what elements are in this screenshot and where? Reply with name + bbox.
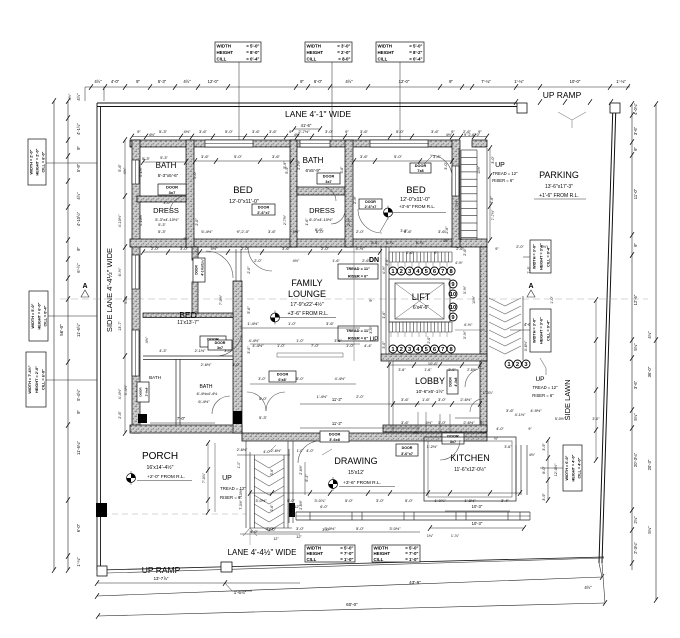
wall bed1 east [290, 140, 297, 247]
svg-text:3'-6": 3'-6" [504, 445, 512, 449]
svg-text:5'-0": 5'-0" [296, 377, 304, 381]
svg-text:7'-0⅞": 7'-0⅞" [202, 472, 206, 483]
svg-text:11'-6⅛": 11'-6⅛" [76, 441, 81, 455]
right dimension chain outer [655, 104, 657, 600]
svg-text:5'-0": 5'-0" [287, 498, 296, 503]
wall lobby east [480, 361, 487, 432]
svg-text:DOOR: DOOR [329, 433, 341, 437]
svg-text:WIDTH: WIDTH [307, 43, 321, 48]
svg-text:1'-6": 1'-6" [424, 368, 432, 372]
svg-text:3'-0": 3'-0" [258, 377, 266, 381]
svg-text:3'-6": 3'-6" [400, 229, 408, 233]
svg-text:43'-9": 43'-9" [409, 580, 421, 585]
svg-text:TREAD = 12": TREAD = 12" [492, 171, 518, 176]
door label bed2 top [410, 163, 431, 173]
stair treads row2 [389, 321, 452, 323]
svg-text:4'-10½": 4'-10½" [139, 213, 143, 226]
stair treads row1 [389, 251, 452, 253]
svg-text:4'-1½": 4'-1½" [139, 166, 143, 177]
svg-text:DOOR: DOOR [139, 387, 143, 397]
svg-text:4'-10½": 4'-10½" [118, 214, 122, 227]
door arc bed3 [216, 330, 242, 356]
svg-text:3x7: 3x7 [217, 346, 223, 350]
svg-text:1'-⅛": 1'-⅛" [616, 79, 626, 84]
svg-text:7'-0": 7'-0" [177, 416, 186, 421]
svg-text:TREAD = 11": TREAD = 11" [346, 266, 370, 271]
svg-text:3'-9": 3'-9" [542, 443, 546, 451]
svg-text:BATH: BATH [149, 375, 161, 380]
svg-text:3'-0½": 3'-0½" [389, 526, 401, 531]
svg-text:1'-0": 1'-0" [288, 321, 297, 326]
svg-text:5'-3": 5'-3" [259, 415, 268, 420]
svg-text:3'-0": 3'-0" [444, 162, 448, 170]
svg-text:4½": 4½" [413, 431, 419, 435]
svg-text:3'-6": 3'-6" [360, 129, 369, 134]
svg-text:RISER = 6": RISER = 6" [348, 274, 368, 279]
svg-text:4½": 4½" [446, 133, 453, 137]
svg-text:2'-0": 2'-0" [516, 245, 524, 249]
svg-text:CILL: CILL [374, 557, 384, 562]
svg-text:WIDTH = 3'-0": WIDTH = 3'-0" [532, 318, 536, 343]
svg-text:2'-1½": 2'-1½" [195, 349, 206, 353]
svg-text:3'-9": 3'-9" [542, 493, 546, 501]
svg-text:CILL: CILL [307, 557, 317, 562]
svg-text:DOOR: DOOR [277, 373, 289, 377]
svg-text:9": 9" [76, 247, 81, 251]
svg-text:8'-6": 8'-6" [371, 241, 379, 245]
svg-text:CILL: CILL [378, 57, 388, 62]
svg-text:3'-6": 3'-6" [401, 420, 410, 425]
svg-text:16'x14'-4½": 16'x14'-4½" [147, 464, 174, 471]
svg-text:9": 9" [478, 129, 482, 134]
svg-text:3'-0": 3'-0" [296, 526, 305, 531]
svg-text:3'-6": 3'-6" [326, 321, 335, 326]
svg-text:3'-6": 3'-6" [272, 154, 281, 159]
ramp arrow bottom [249, 530, 251, 545]
stair numbers row2 [389, 345, 397, 353]
svg-text:1'-⅞": 1'-⅞" [451, 534, 460, 538]
svg-text:3'-0": 3'-0" [232, 363, 240, 367]
svg-text:3'-6": 3'-6" [433, 154, 442, 159]
svg-text:4½": 4½" [584, 585, 592, 590]
svg-text:DOOR: DOOR [215, 341, 226, 345]
svg-text:3'-6": 3'-6" [252, 129, 261, 134]
window table right 3 [563, 445, 582, 491]
svg-text:2'-0": 2'-0" [427, 336, 431, 344]
svg-text:11'-2": 11'-2" [332, 421, 343, 426]
svg-text:HEIGHT = 2'-0": HEIGHT = 2'-0" [36, 148, 40, 175]
svg-text:17'-9"x22'-4½": 17'-9"x22'-4½" [290, 301, 324, 308]
svg-text:3'-½": 3'-½" [463, 330, 467, 339]
svg-text:= 8-0": = 8-0" [338, 57, 350, 62]
exterior wall top stair segment [472, 140, 487, 147]
door arc bath2 [322, 187, 336, 201]
svg-text:1'-0": 1'-0" [296, 339, 304, 343]
svg-text:CILL = 6'-0": CILL = 6'-0" [42, 151, 46, 172]
svg-text:DOOR: DOOR [323, 175, 335, 179]
svg-text:CILL = 6'-0": CILL = 6'-0" [42, 369, 46, 390]
svg-text:5'-4½": 5'-4½" [76, 389, 81, 401]
svg-text:9": 9" [76, 146, 81, 150]
left table 1 leader [46, 162, 97, 164]
svg-text:12'-0½": 12'-0½" [554, 463, 558, 476]
svg-text:5'-3": 5'-3" [142, 156, 151, 161]
door arc mid [206, 251, 233, 278]
svg-text:CILL = 0'-4": CILL = 0'-4" [546, 320, 550, 341]
svg-text:3'-6½": 3'-6½" [524, 340, 528, 351]
window top wall 3 [370, 140, 428, 147]
svg-text:4½": 4½" [145, 336, 149, 343]
svg-text:4⅛": 4⅛" [647, 331, 652, 339]
svg-text:+3'-6" FROM R.L.: +3'-6" FROM R.L. [399, 204, 435, 209]
window top wall 2 [300, 140, 330, 147]
svg-text:TREAD = 12": TREAD = 12" [532, 385, 558, 390]
svg-text:2'-6½": 2'-6½" [467, 368, 477, 372]
svg-text:8'-⅛": 8'-⅛" [416, 241, 425, 245]
svg-text:11'x13'-7": 11'x13'-7" [177, 320, 199, 326]
svg-text:+1'-6" FROM R.L.: +1'-6" FROM R.L. [539, 193, 579, 199]
svg-text:2'-6": 2'-6" [406, 251, 414, 255]
svg-text:13'-6"x17'-3": 13'-6"x17'-3" [545, 184, 573, 190]
svg-text:1'-⅛": 1'-⅛" [514, 79, 524, 84]
svg-text:2'-6½": 2'-6½" [201, 363, 212, 367]
svg-text:4½": 4½" [76, 93, 81, 101]
svg-text:WIDTH = 3'-0": WIDTH = 3'-0" [532, 244, 536, 269]
svg-text:DOOR: DOOR [447, 435, 459, 439]
svg-text:2'-0": 2'-0" [321, 246, 330, 251]
svg-text:= 2'-0": = 2'-0" [337, 50, 350, 55]
svg-text:BATH: BATH [303, 156, 324, 165]
svg-text:2'-6½": 2'-6½" [271, 449, 282, 453]
lane bottom line [107, 558, 604, 573]
wall bath1 east [186, 140, 194, 247]
exterior wall left [132, 140, 140, 433]
window dim chain top [132, 136, 487, 138]
misc arrows bottom [322, 449, 332, 455]
svg-text:4'-0": 4'-0" [268, 528, 276, 532]
svg-text:UP: UP [369, 336, 378, 343]
svg-text:15'x12': 15'x12' [348, 470, 364, 476]
door label lounge south [269, 371, 296, 382]
door arc lobby 1 [465, 368, 484, 387]
svg-text:1'-8½": 1'-8½" [464, 498, 476, 503]
svg-text:7'-3½": 7'-3½" [239, 488, 243, 499]
stair bottom chevrons [254, 459, 284, 468]
svg-text:5'-0": 5'-0" [259, 396, 268, 401]
door label bath1 [158, 184, 186, 195]
svg-text:½": ½" [494, 437, 498, 441]
svg-text:DOOR: DOOR [195, 265, 199, 275]
svg-text:CILL: CILL [217, 57, 227, 62]
svg-text:7'-3½": 7'-3½" [239, 499, 243, 509]
door arc drawing [298, 441, 320, 463]
svg-text:UP RAMP: UP RAMP [543, 90, 582, 100]
svg-text:3'-6x8: 3'-6x8 [329, 438, 340, 442]
svg-text:5'-0": 5'-0" [225, 129, 234, 134]
svg-text:10: 10 [450, 305, 456, 311]
svg-text:5'-4½": 5'-4½" [201, 229, 213, 234]
svg-text:9": 9" [633, 147, 638, 151]
svg-text:2'-0": 2'-0" [356, 395, 364, 399]
svg-text:3'-6": 3'-6" [270, 468, 274, 476]
svg-text:HEIGHT: HEIGHT [217, 50, 234, 55]
svg-text:= 0'-4": = 0'-4" [409, 57, 422, 62]
door arc bath1 [170, 196, 186, 212]
svg-text:5⅛": 5⅛" [633, 413, 638, 421]
svg-text:5'-0": 5'-0" [396, 129, 405, 134]
svg-text:5'-6": 5'-6" [340, 166, 344, 174]
svg-text:CILL = 0'-4": CILL = 0'-4" [546, 246, 550, 267]
svg-text:10'-0": 10'-0" [570, 79, 581, 84]
svg-text:6'-0": 6'-0" [542, 466, 546, 474]
svg-text:6'-4½x4'-4½: 6'-4½x4'-4½ [197, 392, 218, 396]
svg-text:3'-0": 3'-0" [325, 129, 334, 134]
svg-text:4½": 4½" [345, 79, 353, 84]
svg-text:6'-½": 6'-½" [76, 263, 81, 273]
door arc bath3 [212, 396, 230, 414]
svg-text:7'-3": 7'-3" [527, 266, 531, 274]
svg-text:3'-6": 3'-6" [506, 408, 515, 413]
lift shaft [389, 279, 450, 322]
upper stair to parking [461, 149, 477, 151]
svg-text:DRESS: DRESS [309, 206, 335, 215]
svg-text:5'-6": 5'-6" [118, 164, 122, 172]
svg-text:= 7'-0": = 7'-0" [340, 551, 353, 556]
door arc bed1 [248, 247, 272, 271]
svg-text:2'-½": 2'-½" [353, 195, 357, 203]
svg-text:UP RAMP: UP RAMP [142, 565, 181, 575]
level symbol bed2 [387, 206, 389, 220]
door label bed1 [252, 204, 275, 215]
svg-text:2'-7½": 2'-7½" [297, 159, 301, 169]
bottom right corner link [602, 563, 605, 603]
svg-text:2'-6½": 2'-6½" [237, 448, 248, 452]
svg-text:FAMILY: FAMILY [291, 278, 322, 288]
porch dashed line [102, 513, 246, 515]
svg-text:5'-0": 5'-0" [356, 526, 365, 531]
svg-text:6'-0": 6'-0" [316, 229, 325, 234]
svg-text:= 5'-0": = 5'-0" [405, 546, 418, 551]
svg-text:3x7: 3x7 [325, 180, 331, 184]
drawing bottom dims2 [250, 531, 420, 533]
svg-text:4½": 4½" [293, 259, 300, 263]
svg-text:1⅛": 1⅛" [427, 534, 434, 538]
side lawn chain [595, 300, 597, 460]
svg-text:= 8'-0": = 8'-0" [246, 50, 259, 55]
door arc bed2 [358, 209, 382, 233]
svg-text:4½": 4½" [184, 129, 192, 134]
bottom dimension line 13-7 [97, 582, 300, 584]
svg-text:20'-3⅛": 20'-3⅛" [633, 452, 638, 467]
svg-text:3'-6": 3'-6" [199, 129, 208, 134]
svg-text:3'-½": 3'-½" [463, 285, 467, 294]
svg-text:12'-6": 12'-6" [633, 294, 638, 305]
bed1 top dim [195, 160, 292, 162]
svg-text:HEIGHT = 4'-0": HEIGHT = 4'-0" [571, 454, 575, 481]
svg-text:4'-½": 4'-½" [355, 246, 365, 251]
svg-text:6'-0"x4'-10½": 6'-0"x4'-10½" [309, 217, 333, 222]
svg-text:5⅛": 5⅛" [647, 526, 652, 534]
door label lobby [447, 370, 458, 394]
svg-text:9": 9" [345, 129, 349, 134]
left table 3 leader [46, 379, 97, 381]
svg-text:4½": 4½" [443, 239, 450, 243]
door label kitchen [442, 433, 464, 444]
svg-text:4½": 4½" [183, 237, 190, 241]
svg-text:10'-3": 10'-3" [472, 521, 483, 526]
svg-text:LIFT: LIFT [412, 292, 431, 302]
svg-text:DOOR: DOOR [365, 200, 376, 204]
bed3 east thin lines [235, 249, 237, 281]
svg-text:4½": 4½" [76, 192, 81, 200]
svg-text:LOBBY: LOBBY [415, 376, 445, 386]
svg-text:5'-0": 5'-0" [394, 154, 403, 159]
svg-text:7: 7 [441, 269, 444, 275]
door label bed3 [193, 258, 205, 282]
black square stair bottom [289, 503, 295, 517]
svg-text:2⅛": 2⅛" [633, 516, 638, 524]
svg-text:5'-3": 5'-3" [160, 156, 168, 160]
svg-text:1'-6": 1'-6" [305, 218, 309, 226]
svg-text:3'-0⅞": 3'-0⅞" [314, 498, 326, 503]
window left wall 2 [132, 255, 139, 289]
svg-text:4½": 4½" [183, 79, 191, 84]
svg-text:4'-1½": 4'-1½" [515, 413, 526, 417]
svg-text:7'-⅛": 7'-⅛" [481, 79, 491, 84]
svg-text:2'-6": 2'-6" [463, 248, 467, 256]
svg-text:+3'-6" FROM R.L.: +3'-6" FROM R.L. [287, 311, 328, 317]
svg-text:11'-2": 11'-2" [332, 397, 343, 402]
svg-text:5'-4½": 5'-4½" [124, 384, 128, 395]
wall stair east [480, 247, 487, 361]
svg-text:RISER = 6": RISER = 6" [348, 336, 368, 341]
window top wall 1 [205, 140, 253, 147]
svg-text:= 7'-0": = 7'-0" [405, 551, 418, 556]
tread riser box 2 [338, 326, 378, 341]
svg-text:BATH: BATH [156, 161, 177, 170]
svg-text:1'-4½": 1'-4½" [317, 395, 328, 399]
window table bottom 2 [372, 545, 420, 562]
svg-text:4'-0⅛": 4'-0⅛" [633, 103, 638, 115]
svg-text:4'-0": 4'-0" [250, 530, 258, 534]
exterior wall bottom left part [130, 425, 242, 433]
svg-text:9": 9" [480, 420, 484, 425]
svg-text:5'-0": 5'-0" [405, 498, 414, 503]
lounge top dims [143, 251, 380, 253]
svg-text:4'-0": 4'-0" [111, 79, 120, 84]
svg-text:10'-3": 10'-3" [472, 504, 483, 509]
svg-text:1'-6": 1'-6" [382, 311, 386, 319]
svg-text:41'-6": 41'-6" [301, 123, 312, 128]
svg-text:4½": 4½" [94, 79, 102, 84]
svg-text:WIDTH = 6'-0": WIDTH = 6'-0" [565, 455, 569, 480]
svg-text:10½": 10½" [472, 295, 476, 304]
door arc kitchen [440, 440, 460, 460]
wall bed3 north segment [143, 313, 233, 318]
svg-text:4½": 4½" [293, 229, 301, 234]
svg-text:9",2'-0": 9",2'-0" [237, 229, 250, 234]
window left wall 1 [132, 160, 139, 184]
door label drawing [320, 431, 349, 442]
svg-text:3'-6": 3'-6" [369, 326, 373, 334]
porch vertical dims [207, 443, 209, 512]
svg-text:WIDTH: WIDTH [378, 43, 392, 48]
upper interior chain bath1 [143, 161, 186, 163]
left inner dim chain [124, 140, 126, 433]
svg-text:2'-0": 2'-0" [195, 218, 199, 226]
wall lobby south [383, 425, 487, 432]
svg-text:7'-7½": 7'-7½" [455, 199, 459, 210]
svg-text:WIDTH = 7'-4½": WIDTH = 7'-4½" [28, 365, 32, 393]
wall mid horizontal (lounge north) [130, 239, 487, 247]
wall stair south [381, 354, 487, 361]
svg-text:5'-9": 5'-9" [76, 163, 81, 172]
svg-text:9": 9" [137, 129, 141, 134]
svg-text:4'-3": 4'-3" [159, 349, 167, 353]
svg-text:3'-6": 3'-6" [633, 380, 638, 389]
svg-text:3'-0": 3'-0" [592, 417, 600, 421]
svg-text:3'-6": 3'-6" [398, 368, 406, 372]
svg-text:1'-0⅞": 1'-0⅞" [483, 391, 494, 395]
svg-text:2'-6": 2'-6" [463, 129, 472, 134]
svg-text:8'-⅛": 8'-⅛" [386, 241, 395, 245]
stair right chevrons [489, 298, 521, 306]
svg-text:4½": 4½" [426, 420, 434, 425]
section line A-A [60, 298, 648, 300]
svg-text:SIDE LANE 4'-4½" WIDE: SIDE LANE 4'-4½" WIDE [105, 248, 114, 332]
svg-text:5'-3": 5'-3" [159, 129, 168, 134]
svg-text:3'-6": 3'-6" [633, 126, 638, 135]
svg-text:7'-7½": 7'-7½" [491, 209, 495, 220]
svg-text:3'-6": 3'-6" [334, 339, 342, 343]
svg-text:3'-6": 3'-6" [282, 246, 291, 251]
window table left 3 [26, 352, 46, 407]
door label bed2 [359, 199, 382, 209]
svg-text:DOOR: DOOR [415, 164, 427, 168]
svg-text:1'-⅛": 1'-⅛" [76, 557, 81, 567]
svg-text:12'-0": 12'-0" [208, 79, 219, 84]
svg-text:2'-7½": 2'-7½" [283, 214, 287, 225]
svg-text:= 1'-0": = 1'-0" [340, 557, 353, 562]
svg-text:5'-3": 5'-3" [158, 79, 167, 84]
svg-text:3'-0": 3'-0" [382, 341, 386, 349]
svg-text:1'-6": 1'-6" [332, 259, 340, 263]
svg-text:A: A [528, 283, 533, 290]
svg-text:HEIGHT = 2'-0": HEIGHT = 2'-0" [35, 366, 39, 393]
svg-text:60'-0": 60'-0" [346, 602, 358, 607]
svg-text:6'-0": 6'-0" [320, 505, 328, 509]
svg-text:2: 2 [400, 269, 403, 275]
svg-text:3'-0": 3'-0" [247, 346, 251, 354]
svg-text:= 1'-0": = 1'-0" [405, 557, 418, 562]
svg-text:10½": 10½" [477, 165, 481, 174]
svg-text:RISER = 6": RISER = 6" [532, 393, 554, 398]
svg-text:2'-0": 2'-0" [356, 229, 365, 234]
svg-text:5'-9": 5'-9" [283, 161, 287, 169]
svg-text:36'-0": 36'-0" [647, 366, 652, 377]
svg-text:A: A [82, 283, 87, 290]
svg-text:3'-6"x7: 3'-6"x7 [401, 452, 413, 456]
wall bath1/dress1 divider [137, 196, 186, 202]
svg-text:2'-6": 2'-6" [270, 504, 274, 512]
svg-text:2'-6½": 2'-6½" [460, 397, 472, 402]
svg-text:= 8'-2": = 8'-2" [409, 50, 422, 55]
svg-text:LOUNGE: LOUNGE [288, 289, 326, 299]
bed2 leaders [380, 218, 388, 232]
svg-text:12": 12" [294, 505, 300, 509]
svg-text:2'-6": 2'-6" [445, 226, 449, 234]
svg-text:HEIGHT = 6'-0": HEIGHT = 6'-0" [37, 302, 41, 329]
